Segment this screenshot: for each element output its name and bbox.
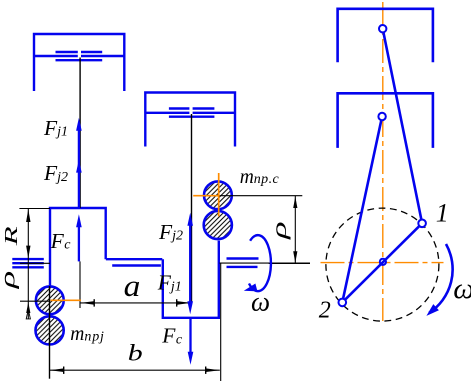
svg-text:1: 1 bbox=[436, 199, 449, 228]
svg-text:b: b bbox=[128, 340, 143, 366]
svg-text:Fj2: Fj2 bbox=[158, 220, 183, 244]
svg-text:ρ: ρ bbox=[0, 271, 20, 290]
svg-text:Fj2: Fj2 bbox=[43, 161, 68, 185]
svg-text:mnp.c: mnp.c bbox=[240, 167, 280, 188]
svg-text:2: 2 bbox=[319, 298, 331, 324]
svg-text:R: R bbox=[1, 226, 21, 247]
svg-text:ω: ω bbox=[453, 272, 471, 305]
svg-text:mnpj: mnpj bbox=[70, 324, 104, 345]
svg-text:Fj1: Fj1 bbox=[43, 116, 68, 140]
svg-text:ρ: ρ bbox=[267, 221, 291, 240]
svg-text:ω: ω bbox=[251, 286, 270, 316]
svg-text:Fc: Fc bbox=[50, 229, 72, 253]
svg-text:Fj1: Fj1 bbox=[157, 271, 182, 295]
svg-text:a: a bbox=[124, 268, 141, 303]
svg-text:Fc: Fc bbox=[161, 324, 183, 348]
